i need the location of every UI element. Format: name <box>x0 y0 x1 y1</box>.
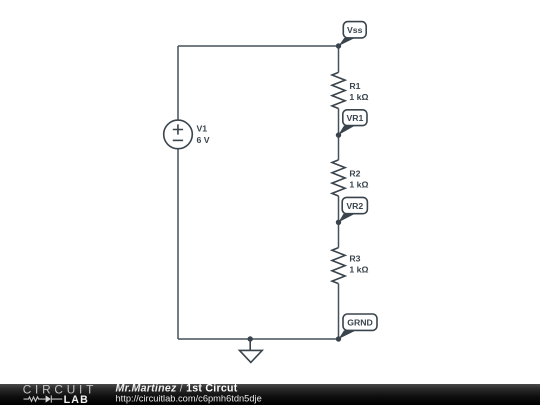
junction ground stub <box>248 336 253 341</box>
svg-text:1 kΩ: 1 kΩ <box>349 265 368 275</box>
svg-text:6 V: 6 V <box>197 135 210 145</box>
voltage source V1 <box>164 120 193 149</box>
ground <box>240 339 263 362</box>
resistor R3 <box>332 248 345 284</box>
logo diode <box>46 395 51 402</box>
junction VR1 <box>336 132 341 137</box>
wire right: Vss node to R1 <box>338 46 340 72</box>
footer bar <box>0 384 540 405</box>
wire right: R3 to GRND node <box>338 284 340 339</box>
svg-text:VR2: VR2 <box>346 201 363 211</box>
wire right: VR2 node to R3 <box>338 222 340 247</box>
logo resistor zigzag <box>24 397 46 401</box>
svg-text:http://circuitlab.com/c6pmh6td: http://circuitlab.com/c6pmh6tdn5dje <box>116 393 262 403</box>
svg-text:1 kΩ: 1 kΩ <box>349 92 368 102</box>
svg-text:GRND: GRND <box>347 318 373 328</box>
junction VR2 <box>336 220 341 225</box>
svg-text:R3: R3 <box>349 253 360 263</box>
wire right: R1 to VR1 node <box>338 108 340 135</box>
junction Vss <box>336 43 341 48</box>
resistor R1 <box>332 72 345 108</box>
svg-text:V1: V1 <box>197 123 208 133</box>
wire right: R2 to VR2 node <box>338 196 340 222</box>
resistor R2 <box>332 160 345 196</box>
node Vss <box>339 22 367 46</box>
wire right: VR1 node to R2 <box>338 135 340 160</box>
node GRND <box>339 314 378 339</box>
svg-text:Vss: Vss <box>347 25 363 35</box>
svg-text:R1: R1 <box>349 81 360 91</box>
wire bottom horizontal <box>178 338 339 340</box>
svg-text:1 kΩ: 1 kΩ <box>349 180 368 190</box>
svg-text:R2: R2 <box>349 169 360 179</box>
wire top horizontal <box>178 45 339 47</box>
svg-text:VR1: VR1 <box>346 113 363 123</box>
svg-text:LAB: LAB <box>64 394 89 405</box>
wire left vertical upper <box>177 46 179 120</box>
node VR1 <box>338 110 367 135</box>
junction GRND <box>336 336 341 341</box>
wire left vertical lower <box>177 149 179 339</box>
node VR2 <box>339 197 368 222</box>
